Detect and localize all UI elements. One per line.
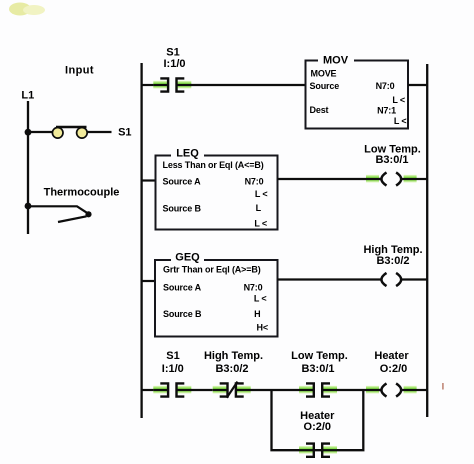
svg-text:B3:0/2: B3:0/2: [215, 363, 248, 375]
contact S1 I:1/0 rung 1 (energized): [153, 78, 191, 91]
wire L1 vertical: [27, 101, 29, 234]
svg-text:N7:0: N7:0: [376, 81, 395, 91]
output coil Low Temp. B3:0/1 (energized): [366, 172, 417, 185]
wire rung 4 between S1 and High Temp contacts: [191, 389, 213, 391]
svg-text:S1: S1: [118, 127, 131, 139]
wire rung 1 from contact to MOV block: [191, 84, 307, 86]
svg-text:H<: H<: [257, 323, 268, 333]
svg-text:N7:0: N7:0: [244, 283, 263, 293]
wire rung 3 from left rail to GEQ: [141, 280, 156, 282]
svg-text:H: H: [254, 309, 260, 319]
svg-text:L: L: [256, 203, 262, 213]
instruction block GEQ: [155, 252, 278, 337]
svg-text:Low Temp.: Low Temp.: [291, 350, 348, 362]
left power rail: [140, 63, 142, 418]
svg-text:L <: L <: [394, 116, 407, 126]
svg-text:B3:0/1: B3:0/1: [375, 154, 408, 166]
junction node to thermocouple: [25, 203, 32, 210]
svg-text:L <: L <: [254, 219, 267, 229]
svg-text:MOV: MOV: [323, 55, 349, 67]
wire rung 4 from left rail to S1 contact: [141, 389, 154, 391]
svg-text:O:2/0: O:2/0: [304, 421, 332, 433]
wire from L1 to pushbutton: [28, 131, 53, 133]
svg-text:L <: L <: [392, 95, 405, 105]
svg-text:Input: Input: [65, 65, 94, 77]
svg-text:S1: S1: [166, 47, 179, 59]
svg-text:Source A: Source A: [163, 283, 202, 293]
svg-text:L <: L <: [255, 189, 268, 199]
wire rung 1 from left rail to contact: [141, 84, 154, 86]
wire rung 4 from Low Temp contact to coil: [337, 389, 382, 391]
svg-text:Source: Source: [310, 81, 340, 91]
svg-text:MOVE: MOVE: [311, 69, 337, 79]
svg-text:Heater: Heater: [374, 350, 409, 362]
wire rung 1 from MOV to right rail: [408, 84, 427, 86]
svg-text:B3:0/1: B3:0/1: [301, 363, 334, 375]
svg-text:O:2/0: O:2/0: [380, 363, 408, 375]
svg-text:I:1/0: I:1/0: [162, 363, 184, 375]
svg-text:Thermocouple: Thermocouple: [44, 187, 120, 199]
output coil Heater O:2/0 (energized): [366, 383, 417, 396]
svg-text:Source B: Source B: [163, 309, 202, 319]
wire rung 3 from coil to right rail: [401, 278, 427, 280]
wire rung 4 from coil to right rail: [417, 389, 428, 391]
wire rung 2 from left rail to LEQ: [141, 179, 156, 181]
svg-text:L <: L <: [254, 294, 267, 304]
svg-text:N7:0: N7:0: [245, 177, 264, 187]
pushbutton S1 (NO pushbutton, two terminals with actuator bar): [52, 127, 87, 138]
branch wire (seal-in): [272, 390, 364, 450]
contact S1 I:1/0 rung 4 (energized): [153, 383, 191, 396]
contact High Temp. B3:0/2 normally closed rung 4 (energized): [213, 382, 251, 398]
right power rail: [426, 64, 428, 417]
contact Low Temp. B3:0/1 rung 4 (energized): [299, 383, 337, 396]
svg-text:Dest: Dest: [310, 105, 329, 115]
svg-text:Grtr Than or Eql (A>=B): Grtr Than or Eql (A>=B): [163, 265, 261, 275]
svg-text:S1: S1: [166, 350, 179, 362]
wire rung 2 from coil to right rail: [417, 178, 428, 180]
svg-text:High Temp.: High Temp.: [204, 350, 263, 362]
wire rung 3 from GEQ to coil: [278, 278, 382, 280]
output coil High Temp. B3:0/2: [381, 273, 401, 286]
wire from pushbutton to S1 label: [87, 131, 111, 133]
wire rung 4 between High Temp contact and Low Temp contact: [251, 389, 300, 391]
instruction block MOV: [306, 53, 409, 129]
svg-text:LEQ: LEQ: [176, 148, 199, 160]
contact Heater O:2/0 seal-in branch (energized): [299, 444, 337, 457]
wire rung 2 from LEQ to coil: [278, 178, 382, 180]
svg-text:N7:1: N7:1: [377, 106, 396, 116]
junction node to pushbutton S1: [25, 129, 32, 136]
svg-text:Source A: Source A: [163, 177, 202, 187]
stray red mark: [442, 383, 444, 390]
instruction block LEQ: [156, 148, 278, 230]
svg-text:I:1/0: I:1/0: [163, 58, 185, 70]
thermocouple probe symbol: [28, 206, 92, 222]
svg-text:L1: L1: [21, 90, 34, 102]
svg-text:Source B: Source B: [163, 204, 202, 214]
svg-text:B3:0/2: B3:0/2: [376, 255, 409, 267]
svg-text:GEQ: GEQ: [175, 252, 200, 264]
svg-text:Less Than or Eql (A<=B): Less Than or Eql (A<=B): [163, 160, 264, 170]
